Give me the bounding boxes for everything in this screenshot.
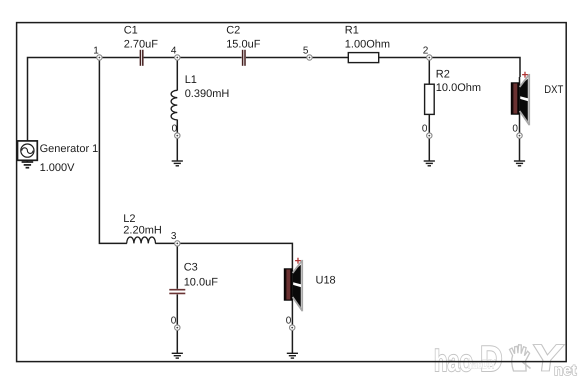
node 0 under U18 bbox=[290, 325, 295, 330]
svg-text:R1: R1 bbox=[345, 25, 359, 37]
capacitor C2 bbox=[243, 50, 245, 66]
wire node4 down to L1 bbox=[176, 58, 178, 91]
node 0 under R2 bbox=[427, 133, 432, 138]
ground under DXT bbox=[514, 161, 525, 166]
svg-text:C1: C1 bbox=[124, 25, 138, 37]
label R2 value bbox=[436, 68, 481, 94]
label L2 value bbox=[123, 213, 162, 237]
capacitor C1 bbox=[140, 50, 142, 66]
resistor R1 bbox=[348, 53, 378, 63]
svg-text:U18: U18 bbox=[316, 274, 336, 286]
svg-text:1.000V: 1.000V bbox=[40, 162, 76, 174]
node 1 bbox=[97, 55, 102, 60]
svg-text:C3: C3 bbox=[184, 262, 198, 274]
svg-text:net: net bbox=[554, 362, 577, 379]
svg-text:2: 2 bbox=[423, 46, 429, 57]
wire through U18 speaker to node0 bbox=[291, 262, 293, 326]
svg-text:4: 4 bbox=[171, 46, 177, 57]
node 0 under DXT bbox=[517, 133, 522, 138]
wire node0 to ground under C3 bbox=[176, 330, 178, 354]
svg-text:5: 5 bbox=[303, 46, 309, 57]
speaker DXT bbox=[511, 69, 529, 125]
label R1 value bbox=[345, 25, 390, 51]
svg-text:haoDIY: haoDIY bbox=[468, 357, 496, 372]
svg-text:0: 0 bbox=[286, 316, 292, 327]
wire C1 to C2 bbox=[144, 57, 242, 59]
node 0 under L1 bbox=[175, 133, 180, 138]
svg-text:0.390mH: 0.390mH bbox=[185, 88, 230, 100]
svg-text:2.20mH: 2.20mH bbox=[123, 224, 162, 236]
wire node0 to ground under R2 bbox=[428, 138, 430, 162]
wire node2 down to R2 bbox=[428, 58, 430, 86]
svg-text:Generator 1: Generator 1 bbox=[40, 143, 99, 155]
wire node0 to ground under DXT bbox=[519, 138, 521, 162]
watermark haoDIY.net bbox=[434, 338, 577, 380]
wire L1 to node0 bbox=[176, 120, 178, 135]
label C3 value bbox=[184, 262, 219, 289]
wire node0 to ground under L1 bbox=[176, 138, 178, 162]
label C1 value bbox=[124, 25, 159, 51]
svg-text:DXT: DXT bbox=[544, 84, 563, 96]
svg-text:10.0uF: 10.0uF bbox=[184, 276, 219, 288]
ground under L1 bbox=[172, 161, 183, 166]
ground under generator bbox=[22, 160, 34, 167]
wire R2 to node0 bbox=[428, 114, 430, 134]
wire node3 down to C3 bbox=[176, 243, 178, 288]
speaker U18 bbox=[284, 255, 302, 311]
label Generator 1 value bbox=[40, 143, 99, 174]
wire through DXT speaker to node0 bbox=[519, 77, 521, 134]
ground under C3 bbox=[172, 353, 183, 358]
node 0 under C3 bbox=[175, 325, 180, 330]
svg-text:+: + bbox=[522, 69, 529, 81]
node 5 bbox=[307, 55, 312, 60]
svg-text:L2: L2 bbox=[123, 213, 135, 225]
resistor R2 bbox=[425, 84, 435, 114]
svg-text:3: 3 bbox=[171, 231, 177, 242]
ground under U18 bbox=[287, 353, 298, 358]
inductor L2 bbox=[127, 237, 156, 243]
wire node0 to ground under U18 bbox=[291, 330, 293, 354]
capacitor C3 bbox=[169, 290, 185, 294]
node 4 bbox=[175, 55, 180, 60]
svg-text:L1: L1 bbox=[185, 74, 197, 86]
svg-text:0: 0 bbox=[422, 123, 428, 134]
svg-text:2.70uF: 2.70uF bbox=[124, 38, 159, 50]
wire C3 to node0 bbox=[176, 294, 178, 326]
svg-text:0: 0 bbox=[171, 316, 177, 327]
wire top rail left (corner to node1 to C1) bbox=[28, 58, 140, 142]
svg-text:0: 0 bbox=[512, 124, 518, 135]
node 2 bbox=[427, 55, 432, 60]
svg-text:0: 0 bbox=[172, 123, 178, 134]
svg-text:10.0Ohm: 10.0Ohm bbox=[436, 82, 481, 94]
ground under R2 bbox=[424, 161, 435, 166]
svg-text:C2: C2 bbox=[226, 25, 240, 37]
svg-text:1.00Ohm: 1.00Ohm bbox=[345, 38, 390, 50]
svg-text:1: 1 bbox=[93, 46, 99, 57]
label L1 value bbox=[185, 74, 230, 100]
generator G1 bbox=[18, 141, 38, 160]
svg-text:+: + bbox=[295, 255, 302, 267]
svg-text:15.0uF: 15.0uF bbox=[226, 38, 261, 50]
wire L2 to node3 to U18 corner bbox=[155, 243, 292, 262]
wire C2 to node5 to R1 to node2 to DXT corner bbox=[246, 58, 520, 78]
inductor L1 bbox=[171, 90, 177, 120]
svg-text:R2: R2 bbox=[436, 68, 450, 80]
label C2 value bbox=[226, 25, 261, 51]
wire node1 down to L2 corner bbox=[99, 58, 127, 244]
node 3 bbox=[175, 241, 180, 246]
